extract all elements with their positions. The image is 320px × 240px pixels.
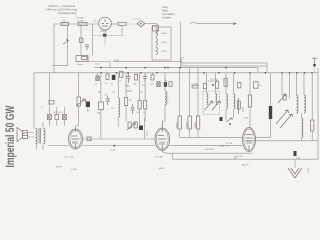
wire drops right	[282, 73, 290, 98]
svg-text:LW MW: LW MW	[77, 18, 86, 20]
svg-text:+7O 14B: +7O 14B	[154, 157, 163, 159]
wire 110V	[88, 62, 110, 68]
svg-text:Dr: Dr	[112, 107, 115, 110]
resistor R4	[79, 38, 83, 43]
wire coil to bus	[179, 22, 181, 68]
svg-text:2x0,1: 2x0,1	[147, 130, 149, 136]
resistor R16	[169, 82, 172, 87]
wire bus A	[94, 68, 258, 73]
capacitor C5 blob	[111, 75, 116, 86]
capacitor C15	[157, 82, 160, 87]
resistor R10	[97, 73, 103, 139]
svg-text:10t: 10t	[105, 94, 108, 97]
resistor R7	[133, 73, 138, 86]
svg-text:0,3: 0,3	[150, 84, 154, 86]
node dot	[114, 145, 116, 147]
antenna symbol	[312, 58, 317, 73]
resistor R6	[118, 71, 123, 82]
svg-text:1M: 1M	[133, 84, 136, 86]
resistor R9	[76, 73, 87, 129]
switch arrow	[233, 23, 236, 25]
wire audio plate	[83, 137, 92, 141]
svg-text:1k: 1k	[143, 112, 146, 114]
wire mains bottom	[173, 153, 319, 159]
choke L4	[112, 73, 120, 127]
capacitor C18	[238, 82, 241, 88]
svg-text:C 1B1: C 1B1	[71, 169, 78, 171]
switch S1	[63, 41, 69, 45]
wire branch x81	[80, 24, 82, 56]
resistor R13	[55, 107, 59, 126]
resistor R14	[243, 73, 252, 128]
capacitor C2	[153, 26, 159, 32]
coil L6 pair	[297, 73, 306, 113]
wire B+ row	[180, 136, 271, 138]
capacitor C8 blob	[86, 102, 90, 113]
capacitor C19	[62, 107, 66, 126]
resistor R5	[105, 73, 110, 85]
resistor R12 pair	[137, 73, 147, 125]
svg-text:+7C 1.4B: +7C 1.4B	[64, 157, 74, 159]
svg-text:UKW ein 2x10,5 MHz empf.: UKW ein 2x10,5 MHz empf.	[46, 8, 78, 12]
capacitor C7	[142, 73, 147, 87]
svg-text:+7V 38: +7V 38	[225, 143, 233, 145]
capacitor C16 blob	[164, 79, 167, 87]
svg-text:0,5: 0,5	[112, 92, 116, 94]
svg-text:Lang: Lang	[162, 5, 168, 9]
resistor R17	[203, 84, 206, 89]
coil L7	[302, 113, 303, 141]
svg-text:W02 300: W02 300	[205, 149, 215, 151]
speaker LS	[17, 128, 35, 142]
capacitor C13	[237, 98, 244, 114]
wire V1 to R3	[111, 23, 118, 25]
resistor R11	[125, 73, 132, 121]
svg-text:1k: 1k	[259, 85, 262, 87]
svg-text:— — —: — — —	[60, 17, 69, 19]
resistor R20	[254, 82, 263, 89]
svg-text:Pendelempfang: Pendelempfang	[58, 11, 77, 15]
wire branch x67	[53, 26, 68, 66]
IF transformer dashed box	[203, 73, 221, 115]
wire heater drop	[266, 66, 268, 73]
svg-text:17H: 17H	[296, 157, 300, 159]
svg-text:Mittel: Mittel	[162, 9, 169, 13]
wire left branch	[53, 24, 55, 73]
svg-text:5–2000: 5–2000	[77, 20, 85, 22]
resistor R1	[61, 22, 69, 25]
capacitor C12	[47, 73, 51, 126]
node dots bus	[100, 67, 313, 74]
svg-text:2µ: 2µ	[111, 84, 114, 86]
capacitor C9	[105, 94, 111, 106]
svg-text:E1 8O: E1 8O	[56, 167, 62, 169]
wire dashed AVC	[94, 35, 125, 46]
mixer diamond	[137, 21, 145, 27]
svg-text:0,1: 0,1	[94, 84, 98, 86]
wire bus B	[34, 72, 318, 74]
svg-text:+7 2 +17: +7 2 +17	[132, 19, 141, 21]
transformer T1 output	[34, 73, 62, 169]
svg-text:6H2O: 6H2O	[159, 168, 165, 170]
capacitor C11 blob	[139, 118, 144, 139]
capacitor C1 blob	[104, 30, 106, 34]
svg-text:50: 50	[105, 83, 108, 85]
transformer Netztr	[76, 56, 88, 67]
svg-text:50: 50	[140, 92, 143, 94]
wire audio bottom	[48, 145, 155, 147]
wire heater loop	[182, 63, 267, 66]
wire band switch	[190, 22, 235, 24]
svg-text:+ A +: + A +	[93, 20, 99, 23]
wire diamond right	[145, 23, 157, 25]
wire to V3	[91, 138, 155, 140]
svg-text:Kurzwellen: Kurzwellen	[162, 12, 175, 16]
capacitor C6	[125, 73, 131, 88]
capacitor C10	[131, 104, 135, 114]
svg-text:0,1: 0,1	[118, 81, 122, 83]
capacitor C14 blob	[294, 151, 297, 156]
note block wave bands	[162, 5, 175, 20]
wire antenna input	[54, 23, 99, 25]
svg-text:(17t): (17t)	[111, 149, 116, 152]
svg-text:UKW ein — (unbesetzt): UKW ein — (unbesetzt)	[48, 4, 75, 8]
svg-text:6 A 8: 6 A 8	[101, 29, 107, 33]
svg-text:2M: 2M	[129, 100, 132, 102]
wire drop R3	[121, 25, 123, 35]
mains plug arrow	[288, 168, 309, 179]
svg-text:1-380: 1-380	[161, 51, 167, 53]
svg-text:5000: 5000	[243, 106, 245, 112]
tube V1	[99, 17, 112, 33]
wire mains drop	[294, 159, 296, 168]
wire drop C2	[156, 24, 158, 36]
svg-text:1,3M: 1,3M	[243, 118, 248, 120]
tone cluster	[127, 122, 143, 130]
small parts under IF	[219, 117, 232, 148]
capacitor C17 box	[191, 83, 198, 88]
label row	[98, 91, 143, 94]
wire V3 bottom curve	[162, 150, 252, 153]
coil L8	[162, 73, 168, 121]
IF resistors bank	[177, 68, 200, 137]
svg-text:6 A 80: 6 A 80	[161, 32, 168, 35]
svg-text:0,1µF 500: 0,1µF 500	[219, 146, 230, 148]
svg-text:schalter: schalter	[162, 16, 171, 20]
svg-text:50000: 50000	[187, 122, 189, 129]
variable arrow R9	[76, 99, 85, 106]
svg-text:5k: 5k	[137, 112, 140, 114]
resistor R8	[150, 73, 155, 86]
wire heater hook	[181, 58, 183, 64]
resistor R15	[311, 73, 314, 141]
note block UKW settings	[46, 4, 78, 19]
wire screen feed	[113, 60, 182, 62]
svg-text:2-490: 2-490	[161, 42, 167, 44]
resistor R18	[212, 82, 219, 89]
coil bank L1-L3	[152, 27, 171, 60]
svg-text:20000: 20000	[195, 122, 197, 129]
wire mid bottom	[170, 144, 243, 146]
svg-text:220V~: 220V~	[307, 168, 309, 175]
variable arrows output	[276, 110, 293, 128]
wire branch x92	[91, 24, 93, 56]
tube V4 rectifier	[234, 128, 256, 167]
IF coil pair	[226, 73, 235, 120]
tube V2	[64, 129, 83, 171]
svg-text:100: 100	[142, 85, 146, 87]
svg-text:Imperial 50 GW: Imperial 50 GW	[3, 105, 17, 167]
svg-text:110 v: 110 v	[95, 64, 101, 66]
choke L5 dark	[269, 73, 272, 138]
capacitor C4	[94, 73, 99, 86]
svg-text:Netztr.: Netztr.	[77, 63, 84, 66]
capacitor C3	[85, 45, 89, 50]
capacitor C22	[49, 101, 54, 105]
tube V3	[154, 121, 170, 170]
wire output bottom	[245, 140, 318, 142]
arrow small top	[278, 94, 286, 103]
capacitor C21	[283, 95, 286, 100]
capacitor C20	[87, 137, 91, 141]
wire dashed R3 to diamond	[126, 23, 137, 25]
svg-text:1 Mg: 1 Mg	[114, 60, 120, 62]
wire right edge	[317, 68, 319, 160]
svg-text:(2Mg): (2Mg)	[126, 91, 132, 93]
svg-text:ca: ca	[41, 107, 44, 109]
svg-text:20000: 20000	[177, 122, 179, 129]
resistor R19	[224, 78, 227, 86]
svg-text:4t: 4t	[165, 79, 167, 82]
svg-text:+7V 2.8: +7V 2.8	[210, 79, 218, 81]
resistor R3	[118, 22, 126, 25]
svg-text:AH 2O: AH 2O	[242, 164, 249, 167]
svg-text:+7V2 8.31: +7V2 8.31	[53, 112, 64, 114]
resistor R2	[78, 22, 87, 25]
